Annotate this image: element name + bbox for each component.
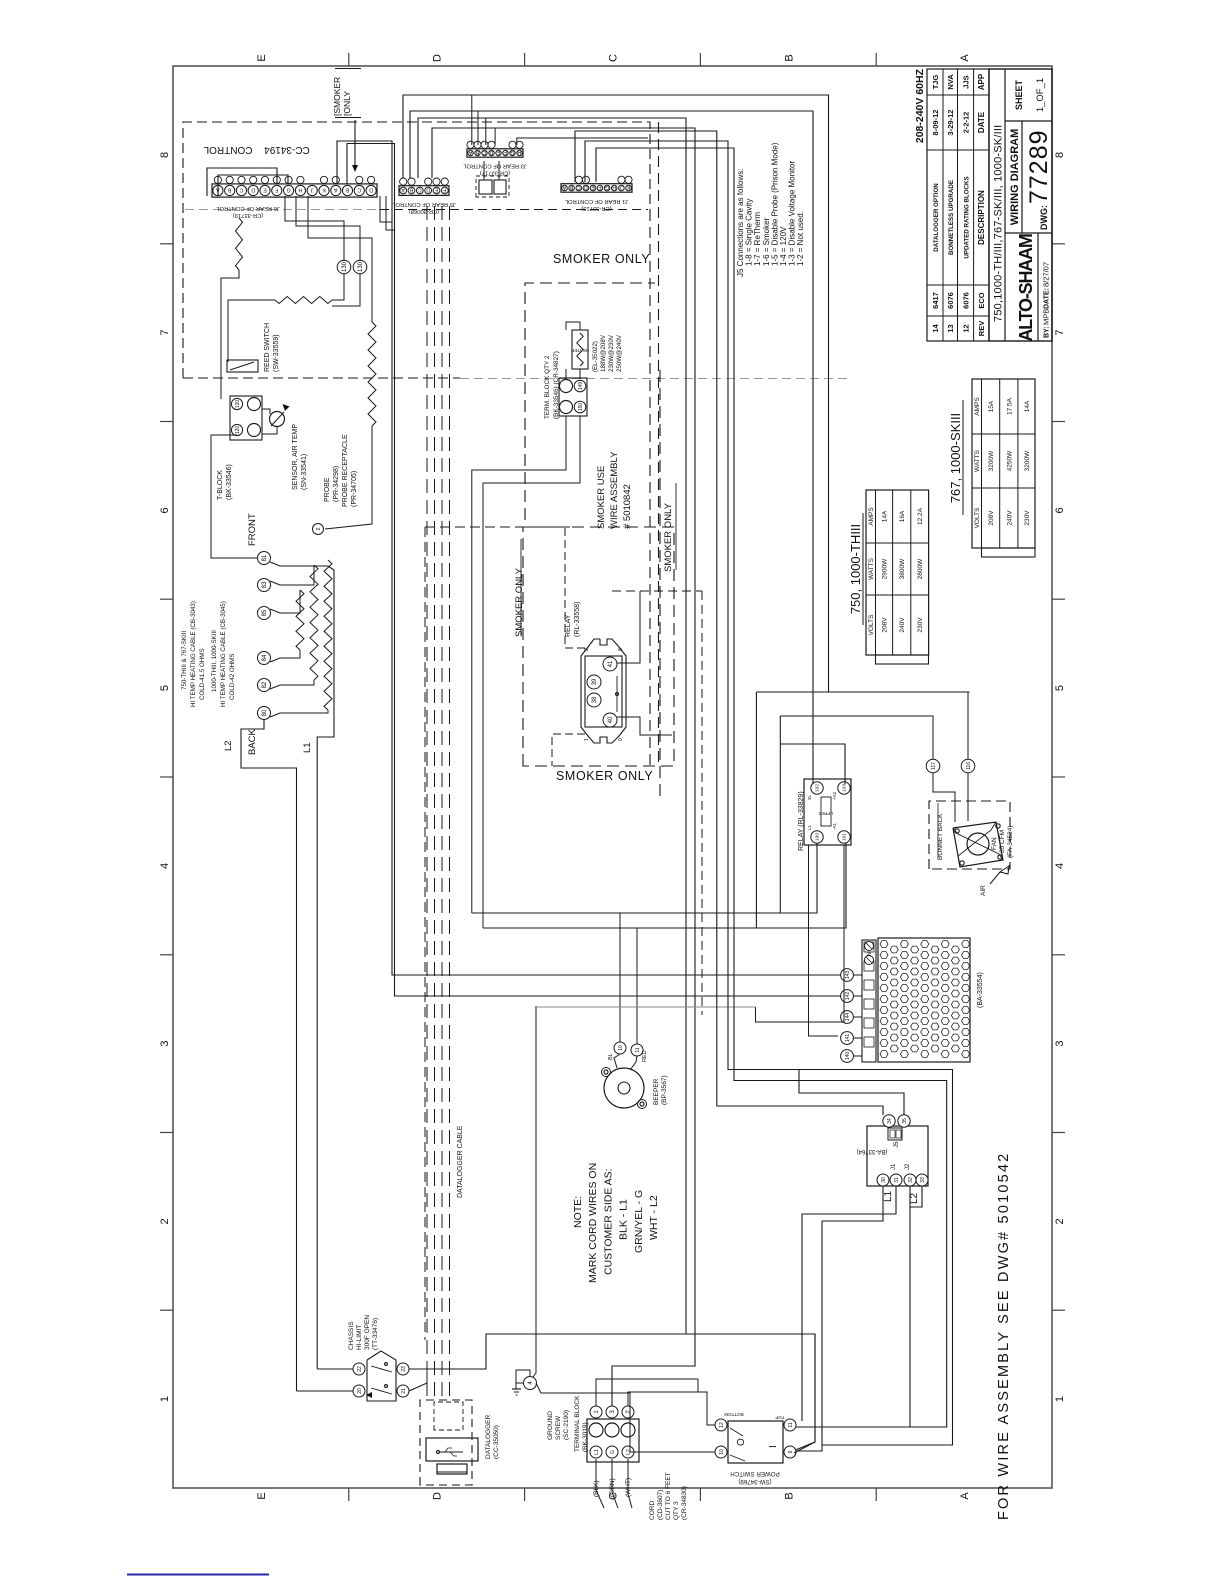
- probe receptacle terminal: [313, 524, 324, 535]
- svg-text:TOP: TOP: [775, 1415, 784, 1420]
- svg-text:D: D: [251, 187, 255, 193]
- svg-text:WATTS: WATTS: [974, 449, 981, 472]
- svg-text:14A: 14A: [882, 510, 889, 522]
- svg-text:2800W: 2800W: [917, 558, 924, 579]
- svg-text:E: E: [256, 1492, 268, 1499]
- svg-text:(PR-34705): (PR-34705): [351, 471, 358, 507]
- svg-text:[ONLY: [ONLY: [342, 91, 352, 116]
- svg-text:A: A: [468, 149, 472, 155]
- svg-text:SMOKER ONLY: SMOKER ONLY: [556, 769, 653, 783]
- svg-text:750-THIII & 767-SKIII: 750-THIII & 767-SKIII: [181, 631, 188, 690]
- svg-text:(PR-34298): (PR-34298): [333, 466, 340, 502]
- svg-text:6: 6: [159, 507, 171, 513]
- svg-text:34: 34: [887, 1118, 893, 1124]
- svg-text:80: 80: [262, 709, 268, 716]
- svg-text:E: E: [434, 187, 438, 193]
- svg-text:CC-34194: CC-34194: [264, 144, 310, 155]
- svg-text:C: C: [357, 187, 361, 193]
- svg-text:(BK-33546): (BK-33546): [226, 464, 233, 500]
- svg-text:38: 38: [592, 696, 598, 703]
- svg-text:K: K: [626, 184, 630, 190]
- svg-text:B: B: [569, 184, 573, 190]
- svg-text:2: 2: [316, 527, 322, 530]
- svg-text:D: D: [426, 187, 430, 193]
- wires relay RL-33558 left pins: [565, 527, 585, 648]
- svg-text:AIR: AIR: [980, 885, 987, 896]
- svg-text:VOLTS: VOLTS: [974, 507, 981, 528]
- BA-33554 ground symbols: [865, 942, 874, 951]
- svg-text:8-09-12: 8-09-12: [931, 110, 940, 136]
- svg-text:(EL-35022): (EL-35022): [592, 341, 599, 372]
- svg-text:84: 84: [262, 654, 268, 661]
- svg-text:E: E: [496, 149, 500, 155]
- svg-text:NVA: NVA: [946, 74, 955, 90]
- svg-text:H: H: [298, 187, 302, 193]
- wire BA-33764 30 down: [822, 1186, 883, 1445]
- svg-text:-A1: -A1: [832, 823, 837, 831]
- dashed bus right of relay: [612, 590, 702, 592]
- wire beeper-column to ground 4: [533, 1006, 536, 1377]
- svg-text:DATE: DATE: [977, 111, 986, 133]
- svg-text:750,1000-TH/III,767-SK/III, 10: 750,1000-TH/III,767-SK/III, 1000-SK/III: [993, 125, 1005, 322]
- relay RL-33558 contacts: [616, 676, 618, 712]
- wires sensor to T-block: [262, 409, 270, 414]
- wire hi-limit 21 to datalogger cable: [409, 1365, 427, 1391]
- svg-text:G: G: [610, 1450, 616, 1454]
- svg-text:WHT - L2: WHT - L2: [648, 1195, 660, 1240]
- svg-text:I: I: [768, 1445, 779, 1448]
- svg-text:33: 33: [920, 1177, 926, 1183]
- svg-text:DWG:: DWG:: [1039, 205, 1049, 230]
- terminal 130 b: [353, 260, 367, 274]
- svg-text:PROBE RECEPTACLE: PROBE RECEPTACLE: [342, 434, 349, 507]
- wire BA-33764 31 down: [802, 1186, 896, 1421]
- svg-text:35: 35: [902, 1118, 908, 1124]
- svg-text:HI TEMP HEATING CABLE (CB-3045: HI TEMP HEATING CABLE (CB-3045): [220, 601, 227, 707]
- svg-text:HI TEMP HEATING CABLE (CB-3043: HI TEMP HEATING CABLE (CB-3043): [190, 601, 197, 707]
- svg-text:VOLTS: VOLTS: [868, 614, 875, 635]
- svg-text:DATALOGGER OPTION: DATALOGGER OPTION: [933, 183, 940, 252]
- svg-text:4: 4: [1054, 863, 1066, 869]
- svg-text:SMOKER ONLY: SMOKER ONLY: [553, 252, 650, 266]
- svg-text:14: 14: [931, 324, 940, 333]
- svg-text:SCREW: SCREW: [555, 1415, 562, 1440]
- svg-text:(BA-33554): (BA-33554): [977, 972, 984, 1008]
- svg-text:F: F: [275, 187, 278, 193]
- svg-text:2: 2: [1054, 1218, 1066, 1224]
- wire fan 116 branch: [756, 691, 969, 693]
- ground screw SC-2190: [524, 1377, 537, 1390]
- T-block BK-33546: [230, 396, 262, 440]
- svg-text:240V: 240V: [1006, 510, 1013, 526]
- air temp sensor SN-33541: [270, 412, 285, 427]
- svg-text:F: F: [443, 187, 446, 193]
- svg-text:H: H: [517, 149, 521, 155]
- wire loops above J6: [207, 168, 277, 196]
- svg-text:1000-THIII, 1000-SKIII: 1000-THIII, 1000-SKIII: [211, 630, 218, 692]
- svg-text:CUT TO 6 FEET: CUT TO 6 FEET: [665, 1472, 672, 1520]
- svg-text:AMPS: AMPS: [974, 397, 981, 416]
- relay RL-33558 dashed box: [523, 527, 674, 766]
- svg-text:101: 101: [842, 833, 848, 841]
- svg-text:240V: 240V: [899, 617, 906, 633]
- svg-text:DATE:: DATE:: [1044, 288, 1051, 309]
- svg-text:REED SWITCH: REED SWITCH: [264, 323, 271, 372]
- svg-text:31: 31: [894, 1177, 900, 1183]
- svg-text:40: 40: [608, 716, 614, 723]
- svg-text:RELAY (RL-33829): RELAY (RL-33829): [798, 791, 805, 851]
- svg-text:GRN/YEL - G: GRN/YEL - G: [633, 1190, 645, 1253]
- connector J6 rear of control (CR-33719): [212, 184, 377, 197]
- svg-text:DESCRIPTION: DESCRIPTION: [977, 190, 986, 245]
- svg-text:BLK - L1: BLK - L1: [618, 1199, 630, 1240]
- beeper terminals 10 11: [614, 1042, 626, 1054]
- border frame: [173, 66, 1052, 1488]
- svg-text:150: 150: [578, 403, 584, 412]
- svg-text:C: C: [482, 149, 486, 155]
- wire TB 1 to riser: [596, 1379, 707, 1406]
- svg-text:1_OF_1: 1_OF_1: [1035, 78, 1046, 112]
- svg-text:32: 32: [908, 1177, 914, 1183]
- wires heater to term block: [565, 369, 567, 379]
- svg-text:(SW-34769): (SW-34769): [738, 1478, 771, 1485]
- svg-text:H: H: [612, 184, 616, 190]
- svg-text:TERMINAL BLOCK: TERMINAL BLOCK: [574, 1395, 581, 1452]
- svg-text:6076: 6076: [961, 292, 970, 309]
- svg-text:RELAY: RELAY: [565, 614, 572, 637]
- svg-text:E: E: [263, 187, 267, 193]
- svg-text:7: 7: [1054, 330, 1066, 336]
- wire relay 41 to dashed bus: [617, 591, 640, 663]
- svg-text:BL: BL: [608, 1053, 614, 1060]
- svg-text:208V: 208V: [882, 617, 889, 633]
- svg-text:BEEPER: BEEPER: [653, 1078, 660, 1105]
- svg-text:QTY 3: QTY 3: [673, 1501, 680, 1520]
- blue reference underline: [127, 1574, 269, 1576]
- svg-text:J6 REAR OF CONTROL: J6 REAR OF CONTROL: [215, 205, 279, 211]
- svg-text:PROBE: PROBE: [324, 477, 331, 502]
- power board BA-33554 honeycomb: [878, 938, 970, 1062]
- relay RL-33829 terminals: [811, 782, 823, 794]
- svg-text:21: 21: [401, 1388, 407, 1394]
- svg-text:81: 81: [262, 554, 268, 561]
- dashed link smoker TB: [425, 526, 581, 528]
- svg-text:14A: 14A: [1024, 400, 1031, 412]
- wire switch 9 diagonal: [794, 1334, 815, 1453]
- wire zigzag to probe receptacle: [325, 426, 372, 529]
- hi-limit terminals: [353, 1363, 365, 1375]
- title block: [989, 69, 1052, 341]
- wire TB 2 to switch 12: [628, 1392, 715, 1425]
- svg-text:B: B: [475, 149, 479, 155]
- revision table: [927, 69, 989, 341]
- connector J1 rear of control (CR-33718): [561, 184, 632, 193]
- zone ticks and labels: [160, 53, 1065, 1501]
- svg-text:188W@208V: 188W@208V: [600, 334, 607, 372]
- svg-text:MARK CORD WIRES ON: MARK CORD WIRES ON: [587, 1163, 599, 1283]
- svg-text:35 CFM: 35 CFM: [999, 830, 1006, 853]
- wire run J5/J3 to fan feed A: [403, 95, 829, 692]
- svg-text:A: A: [562, 184, 566, 190]
- svg-text:D: D: [432, 1492, 444, 1500]
- svg-text:BONNETLESS UPGRADE: BONNETLESS UPGRADE: [948, 180, 955, 255]
- svg-text:143: 143: [845, 971, 851, 980]
- svg-text:J3 REAR OF CONTROL: J3 REAR OF CONTROL: [462, 163, 526, 169]
- svg-text:A: A: [401, 187, 405, 193]
- svg-text:767, 1000-SKIII: 767, 1000-SKIII: [948, 413, 963, 503]
- svg-text:(BA-33764): (BA-33764): [857, 1148, 888, 1154]
- svg-text:(RL-33558): (RL-33558): [574, 602, 581, 637]
- relay RL-33829 body: [804, 779, 851, 845]
- riser J3 pin d: [494, 128, 496, 145]
- terminal block BK-3019: [587, 1419, 639, 1462]
- wire relay 100 to resistor 141: [809, 845, 839, 1036]
- svg-text:2-2-12: 2-2-12: [961, 112, 970, 134]
- beeper BP-3567: [604, 1068, 644, 1108]
- svg-text:(CR-34830): (CR-34830): [681, 1486, 688, 1520]
- svg-text:141: 141: [845, 1034, 851, 1043]
- svg-text:3-29-12: 3-29-12: [946, 110, 955, 136]
- wire L2 run: [241, 720, 297, 1391]
- svg-text:F: F: [504, 149, 507, 155]
- datalogger cable dashed: [426, 206, 428, 1398]
- svg-text:(CR-33719): (CR-33719): [233, 212, 263, 218]
- wires hi-limit left: [317, 1368, 353, 1370]
- svg-text:COLD-42 OHMS: COLD-42 OHMS: [229, 654, 236, 700]
- jumper dashed outline: [476, 176, 509, 197]
- svg-text:144: 144: [845, 1013, 851, 1022]
- svg-text:82: 82: [262, 681, 268, 688]
- svg-text:8: 8: [618, 648, 624, 651]
- svg-text:77289: 77289: [1025, 129, 1053, 204]
- svg-text:117: 117: [931, 762, 937, 770]
- svg-text:17.5A: 17.5A: [1006, 397, 1013, 415]
- svg-text:20: 20: [357, 1388, 363, 1394]
- BA-33764 bottom terminals: [877, 1174, 889, 1186]
- svg-text:C: C: [577, 184, 581, 190]
- wires fan: [933, 773, 955, 822]
- svg-text:B: B: [409, 187, 413, 193]
- board BA-33764: [867, 1126, 928, 1186]
- wire gray to ground column: [536, 1006, 756, 1008]
- BA-33554 terminal strip: [862, 940, 876, 1062]
- svg-text:750, 1000-THIII: 750, 1000-THIII: [848, 524, 863, 614]
- svg-text:SMOKER USE: SMOKER USE: [596, 466, 607, 529]
- chassis hi-limit TT-33476: [367, 1351, 396, 1401]
- svg-text:F: F: [598, 184, 601, 190]
- svg-text:FOR WIRE ASSEMBLY SEE DWG# 501: FOR WIRE ASSEMBLY SEE DWG# 5010542: [996, 1152, 1012, 1520]
- svg-text:3: 3: [159, 1041, 171, 1047]
- svg-text:ECO: ECO: [977, 292, 986, 308]
- svg-text:2: 2: [159, 1218, 171, 1224]
- svg-text:(SC-2190): (SC-2190): [563, 1410, 570, 1440]
- svg-text:230V: 230V: [1024, 510, 1031, 526]
- svg-text:23: 23: [401, 1366, 407, 1372]
- datalogger usb symbol: [440, 1451, 463, 1453]
- svg-text:C: C: [608, 54, 620, 62]
- svg-text:30: 30: [881, 1177, 887, 1183]
- wire L1 run: [317, 566, 334, 1369]
- svg-text:130: 130: [358, 261, 364, 272]
- svg-text:K: K: [322, 187, 326, 193]
- svg-text:120: 120: [235, 400, 241, 409]
- svg-text:FAN: FAN: [991, 837, 998, 850]
- cord wires: [596, 1459, 604, 1508]
- heater wiring: [270, 562, 328, 566]
- svg-text:230W@230V: 230W@230V: [608, 334, 615, 372]
- wire BA-33764 33 jog: [910, 1186, 922, 1207]
- svg-text:C: C: [418, 187, 422, 193]
- svg-text:J1: J1: [891, 1163, 897, 1170]
- wire ground 4 to switch 10: [536, 1383, 715, 1452]
- svg-text:G: G: [605, 184, 609, 190]
- svg-text:B: B: [227, 187, 231, 193]
- svg-text:O: O: [736, 1438, 747, 1446]
- connector J3 rear of control (CR-33717): [467, 149, 523, 157]
- svg-text:J2: J2: [905, 1163, 911, 1170]
- svg-text:3L: 3L: [807, 794, 812, 800]
- relay RL-33558 body: [581, 639, 626, 743]
- svg-text:149: 149: [578, 382, 584, 391]
- svg-text:3: 3: [1054, 1041, 1066, 1047]
- gray dashed line rear-of-control upper: [380, 209, 648, 211]
- svg-text:WIRE ASSEMBLY: WIRE ASSEMBLY: [609, 451, 620, 529]
- svg-text:120: 120: [235, 426, 241, 435]
- svg-text:8: 8: [1054, 152, 1066, 158]
- svg-text:B: B: [783, 1492, 795, 1499]
- svg-text:100: 100: [815, 833, 821, 841]
- svg-text:4: 4: [159, 863, 171, 869]
- wire horizontal to relay 101: [483, 843, 846, 928]
- svg-text:4250W: 4250W: [1006, 450, 1013, 471]
- svg-text:83: 83: [262, 581, 268, 588]
- svg-text:L1: L1: [302, 742, 313, 753]
- svg-text:HEATER: HEATER: [570, 348, 589, 353]
- svg-text:WIRING DIAGRAM: WIRING DIAGRAM: [1009, 129, 1021, 226]
- svg-text:D: D: [584, 184, 588, 190]
- BA-33764 top terminals: [883, 1115, 895, 1127]
- svg-text:RED: RED: [642, 1050, 648, 1062]
- svg-text:J5 REAR OF CONTROL: J5 REAR OF CONTROL: [391, 201, 455, 207]
- svg-text:8: 8: [159, 152, 171, 158]
- svg-text:130: 130: [342, 261, 348, 272]
- heating element resistors: [296, 590, 304, 650]
- svg-text:3200W: 3200W: [988, 450, 995, 471]
- svg-text:J: J: [620, 184, 623, 190]
- wire run J5/J3 to relay feed B: [410, 111, 813, 784]
- wire run to switch leg: [418, 118, 686, 1334]
- wire J6 to right probe drop: [308, 196, 372, 322]
- svg-text:DATALOGGER: DATALOGGER: [485, 1415, 492, 1459]
- svg-text:41: 41: [608, 660, 614, 667]
- riser J3 pin c: [485, 118, 487, 145]
- svg-text:TJG: TJG: [931, 75, 940, 90]
- svg-text:L1: L1: [807, 824, 812, 830]
- svg-text:BOTTOM: BOTTOM: [724, 1412, 743, 1417]
- svg-text:# 5010842: # 5010842: [622, 484, 633, 529]
- wire J6 right pins to pair: [380, 196, 392, 222]
- svg-text:(FA-34524): (FA-34524): [1007, 825, 1014, 858]
- svg-text:11: 11: [635, 1047, 641, 1052]
- svg-text:A: A: [959, 54, 971, 62]
- svg-text:NOTE:: NOTE:: [572, 1196, 584, 1228]
- wire J3 to J5 note column: [517, 138, 648, 145]
- wire smoker TB drops: [472, 416, 566, 913]
- twisted pair to 130 terminals: [275, 297, 332, 304]
- beeper wires: [614, 1054, 620, 1068]
- svg-text:T-BLOCK: T-BLOCK: [217, 470, 224, 500]
- wires 130 up to J6: [330, 221, 344, 260]
- svg-text:1: 1: [159, 1396, 171, 1402]
- svg-text:7: 7: [159, 330, 171, 336]
- svg-text:3800W: 3800W: [899, 558, 906, 579]
- svg-text:AMPS: AMPS: [868, 507, 875, 526]
- svg-text:UPPER: UPPER: [819, 811, 833, 816]
- svg-text:(CR-33718): (CR-33718): [581, 205, 611, 211]
- svg-text:[SMOKER: [SMOKER: [332, 77, 342, 116]
- svg-text:TERM. BLOCK QTY 2: TERM. BLOCK QTY 2: [544, 355, 551, 419]
- svg-text:DATALOGGER CABLE: DATALOGGER CABLE: [457, 1125, 464, 1198]
- svg-text:ALTO-SHAAM: ALTO-SHAAM: [1016, 234, 1036, 342]
- svg-text:POWER SWITCH: POWER SWITCH: [730, 1470, 780, 1477]
- svg-text:10: 10: [618, 1045, 624, 1051]
- svg-text:9: 9: [788, 1450, 794, 1453]
- svg-text:D: D: [432, 54, 444, 62]
- svg-text:8/27/07: 8/27/07: [1042, 262, 1051, 287]
- svg-text:BY:: BY:: [1044, 326, 1051, 338]
- BA-33764 J5 jumper: [888, 1128, 902, 1140]
- terminal 130 a: [337, 260, 351, 274]
- fan FA-34524: [953, 822, 1003, 867]
- svg-text:0: 0: [618, 738, 624, 741]
- svg-text:22: 22: [357, 1366, 363, 1372]
- wire relay 40 to dashed bus: [617, 717, 672, 735]
- svg-text:REV: REV: [977, 321, 986, 336]
- svg-text:D: D: [489, 149, 493, 155]
- svg-text:300F OPEN: 300F OPEN: [364, 1315, 371, 1350]
- svg-text:(BP-3567): (BP-3567): [661, 1075, 668, 1105]
- wire reed switch to twisted pair: [228, 300, 275, 362]
- svg-text:(CC-35050): (CC-35050): [493, 1425, 500, 1459]
- svg-text:CUSTOMER SIDE AS:: CUSTOMER SIDE AS:: [602, 1168, 614, 1275]
- wire horizontal to relay 100: [472, 843, 817, 913]
- smoker term block BK-33546 qty2: [559, 378, 587, 416]
- svg-text:13: 13: [946, 324, 955, 332]
- jumper plugs below J3: [479, 180, 492, 194]
- svg-text:208V: 208V: [988, 510, 995, 526]
- svg-text:J5: J5: [894, 1141, 900, 1148]
- svg-text:6: 6: [1054, 507, 1066, 513]
- bonnet back dashed box: [929, 801, 1010, 869]
- arrow smoker-only to J6: [354, 120, 356, 166]
- svg-text:APP: APP: [977, 73, 986, 90]
- svg-text:HI-LIMIT: HI-LIMIT: [356, 1325, 363, 1350]
- svg-text:MPB: MPB: [1042, 309, 1051, 325]
- riser J3 pin a: [471, 95, 473, 145]
- svg-text:CHASSIS: CHASSIS: [348, 1321, 355, 1350]
- wire J1 risers to long drops: [575, 131, 883, 1115]
- svg-text:B: B: [345, 187, 349, 193]
- svg-text:CONTROL: CONTROL: [203, 144, 252, 155]
- svg-text:A: A: [959, 1492, 971, 1500]
- svg-text:5: 5: [1054, 685, 1066, 691]
- wire fan 117 branch: [780, 715, 932, 717]
- svg-text:2900W: 2900W: [882, 558, 889, 579]
- control board dashed outline CC-34194: [183, 122, 650, 378]
- svg-text:UPDATED RATING BLOCKS: UPDATED RATING BLOCKS: [963, 176, 970, 258]
- svg-text:E: E: [591, 184, 595, 190]
- svg-text:CORD: CORD: [649, 1501, 656, 1520]
